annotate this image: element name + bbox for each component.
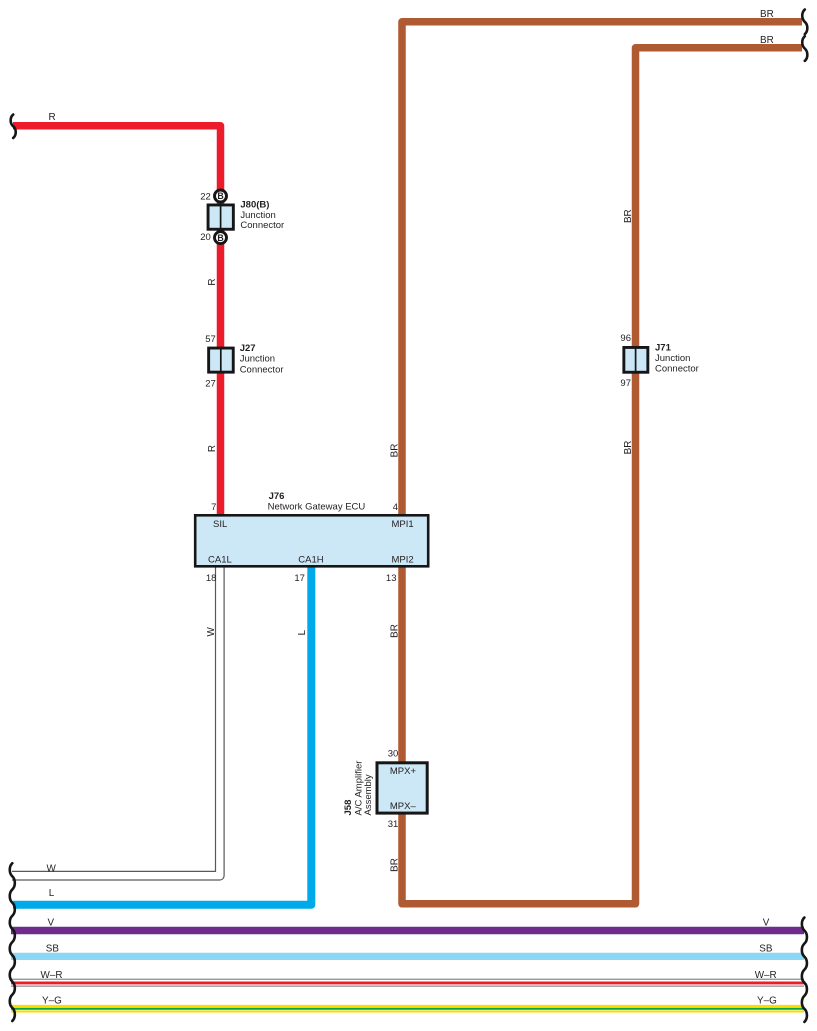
svg-text:Y–G: Y–G [42,995,62,1006]
wire R from left break to J76 pin 7 [13,126,221,514]
svg-text:31: 31 [388,819,399,830]
svg-text:B: B [217,191,223,201]
wire W (white w/ dark outline) J76 pin 18 down and left [12,568,220,876]
svg-text:BR: BR [389,624,400,638]
svg-text:W: W [206,626,217,636]
junction connector J80(B) body [208,205,233,229]
A/C amplifier J58 body [377,763,427,813]
junction connector J80(B) circled B pin 20 [215,232,227,244]
svg-text:SB: SB [46,943,60,954]
svg-text:R: R [207,445,218,452]
wire L (blue) J76 pin 17 down and left [13,568,311,905]
svg-text:L: L [49,888,55,899]
wire BR MPI2 to J58 MPX+ [398,568,406,762]
svg-text:SIL: SIL [213,519,227,530]
svg-text:BR: BR [623,209,634,223]
svg-text:17: 17 [294,573,305,584]
wire SB (sky blue) bottom full width [11,953,804,960]
svg-text:7: 7 [211,502,216,513]
svg-text:W–R: W–R [755,970,777,981]
svg-text:MPI2: MPI2 [392,555,414,566]
svg-text:57: 57 [205,334,216,345]
svg-text:R: R [207,278,218,285]
svg-text:Connector: Connector [240,365,284,376]
svg-text:13: 13 [386,573,397,584]
wire W-R (white with red stripe, gray outline) [11,979,804,987]
svg-text:22: 22 [200,192,211,203]
svg-text:Connector: Connector [240,220,284,231]
svg-text:L: L [297,629,308,635]
wire V (violet) bottom full width [11,927,804,935]
break symbols left ends of wires W, L, V, SB, W-R, Y-G (chained) [10,863,15,1021]
svg-text:J27: J27 [240,343,256,354]
svg-text:SB: SB [759,943,773,954]
svg-text:MPX–: MPX– [390,801,417,812]
break symbol left end of wire R [11,115,16,139]
svg-text:BR: BR [389,444,400,458]
svg-text:CA1H: CA1H [298,555,323,566]
svg-text:BR: BR [623,441,634,455]
svg-text:J71: J71 [655,342,672,353]
svg-text:CA1L: CA1L [208,555,232,566]
svg-text:J58: J58 [343,800,354,816]
svg-text:BR: BR [389,858,400,872]
svg-text:V: V [48,917,55,928]
svg-text:30: 30 [388,748,399,759]
svg-text:4: 4 [393,502,398,513]
ECU J76 body [195,515,428,566]
svg-text:MPX+: MPX+ [390,766,417,777]
svg-text:MPI1: MPI1 [392,519,414,530]
svg-text:B: B [217,233,223,243]
wire Y-G (yellow with green stripe) [11,1005,804,1013]
svg-text:96: 96 [620,333,631,344]
junction connector J27 body [209,348,234,372]
svg-text:Junction: Junction [240,354,275,365]
break symbols right ends of both BR wires [802,10,807,61]
wire BR J58 MPX- down, bottom run, up through J71, top right [402,48,802,904]
svg-text:97: 97 [620,378,631,389]
svg-text:Assembly: Assembly [363,774,374,815]
svg-text:R: R [49,112,56,123]
svg-text:Network Gateway ECU: Network Gateway ECU [268,502,366,513]
svg-text:18: 18 [206,573,217,584]
svg-text:BR: BR [760,9,774,20]
svg-text:Junction: Junction [655,353,690,364]
svg-text:20: 20 [200,232,211,243]
svg-text:J80(B): J80(B) [240,199,269,210]
junction connector J80(B) circled B pin 22 [215,190,227,202]
svg-text:Connector: Connector [655,364,699,375]
wire BR feed to MPI1 (top horizontal + vertical at x=401.5) [402,22,802,514]
svg-text:W–R: W–R [41,970,63,981]
svg-text:J76: J76 [269,491,285,502]
junction connector J71 body [624,347,648,372]
svg-text:W: W [47,863,57,874]
break symbols right ends of wires V, SB, W-R, Y-G (chained) [802,918,807,1022]
svg-text:BR: BR [760,35,774,46]
svg-text:V: V [763,917,770,928]
svg-text:Y–G: Y–G [757,995,777,1006]
svg-text:27: 27 [205,379,216,390]
